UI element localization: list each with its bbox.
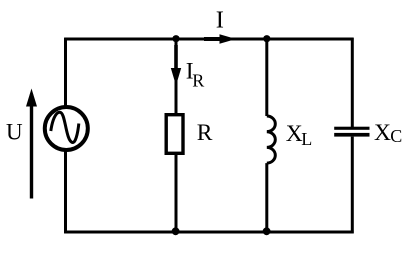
- wire resistor branch lower: [175, 155, 178, 232]
- junction node top resistor: [172, 35, 179, 42]
- svg-text:C: C: [390, 126, 402, 146]
- current arrow IR shaft: [174, 45, 178, 70]
- svg-text:X: X: [374, 120, 391, 146]
- resistor R body: [166, 115, 183, 154]
- wire left lower segment: [64, 150, 67, 234]
- wire resistor branch upper: [175, 38, 178, 114]
- AC source sine wave: [51, 112, 79, 142]
- current arrow IR head: [171, 68, 181, 86]
- wire right upper segment: [351, 38, 354, 127]
- junction node bottom resistor: [172, 227, 180, 235]
- current arrow I head: [220, 34, 237, 44]
- svg-text:R: R: [197, 120, 213, 146]
- wire inductor branch upper: [265, 38, 268, 116]
- svg-text:U: U: [6, 120, 23, 145]
- wire bottom horizontal: [64, 231, 353, 234]
- svg-text:L: L: [301, 129, 312, 149]
- inductor XL coil: [267, 116, 276, 163]
- wire top horizontal: [64, 38, 353, 41]
- voltage arrow U head: [26, 89, 37, 107]
- svg-text:I: I: [216, 7, 224, 34]
- current arrow I shaft: [204, 37, 224, 41]
- AC source U1 circle: [45, 107, 88, 150]
- capacitor XC bottom plate: [334, 133, 369, 137]
- wire right lower segment: [351, 137, 354, 234]
- junction node top inductor: [263, 35, 270, 42]
- junction node bottom inductor: [263, 227, 271, 235]
- svg-text:R: R: [192, 70, 204, 90]
- wire left upper segment: [64, 38, 67, 108]
- capacitor XC top plate: [334, 127, 369, 130]
- wire inductor branch lower: [265, 163, 268, 232]
- voltage arrow U shaft: [30, 104, 33, 199]
